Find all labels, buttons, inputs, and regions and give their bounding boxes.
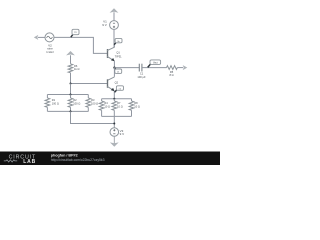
svg-text:100 Ω: 100 Ω — [91, 101, 98, 105]
junction — [70, 83, 72, 85]
node flag collector Q1 — [114, 38, 122, 44]
output junction dot — [113, 67, 115, 69]
node flag Vout — [148, 60, 161, 68]
supply arrow above R6 — [66, 51, 75, 64]
resistor R7 — [112, 99, 123, 117]
wire to bottom — [71, 111, 115, 123]
input terminal arrow — [34, 35, 45, 40]
node flag Q2 — [115, 86, 124, 93]
svg-text:100 Ω: 100 Ω — [73, 101, 80, 105]
junction — [70, 94, 72, 96]
node flag IN — [71, 29, 79, 37]
svg-text:100 Ω: 100 Ω — [52, 101, 59, 105]
svg-text:TIP31: TIP31 — [115, 54, 122, 58]
svg-text:http://circuitlab.com/c22bu27c: http://circuitlab.com/c22bu27czy5k3 — [51, 158, 105, 162]
svg-text:8 Ω: 8 Ω — [169, 73, 173, 77]
svg-text:9 V: 9 V — [120, 132, 125, 136]
transistor Q1 — [107, 43, 122, 67]
wire C1 to R5 — [142, 67, 167, 69]
R1 R2 R3 bottom rail — [47, 110, 88, 112]
output terminal arrow — [183, 65, 188, 70]
battery V3 bottom — [110, 128, 124, 145]
resistor R4 — [99, 99, 110, 117]
wire R6 to rail — [70, 84, 72, 95]
footer watermark bar — [0, 152, 220, 166]
resistor R6 — [68, 64, 79, 84]
svg-text:9 V: 9 V — [102, 23, 107, 27]
svg-text:10 Ω: 10 Ω — [104, 104, 110, 108]
capacitor C1 — [137, 64, 146, 79]
svg-text:1 kHz: 1 kHz — [46, 50, 54, 54]
R1 R2 R3 top rail — [47, 94, 88, 96]
svg-text:Vout: Vout — [153, 61, 158, 64]
resistor R2 — [68, 95, 80, 112]
junction — [70, 110, 72, 112]
sub-network bottom rail — [102, 115, 132, 117]
wire down to V3 — [113, 116, 115, 127]
sub-network top rail — [102, 98, 132, 100]
resistor R8 — [129, 99, 140, 117]
resistor R3 — [86, 95, 98, 112]
svg-text:phogfan / BP#2: phogfan / BP#2 — [51, 154, 78, 158]
ground arrow bottom — [110, 142, 119, 146]
battery V1 top — [102, 8, 118, 47]
svg-text:1k Ω: 1k Ω — [74, 67, 79, 71]
resistor R5 (load) — [167, 66, 184, 77]
wire input top — [54, 37, 107, 53]
node flag emitter Q1 — [115, 68, 122, 74]
svg-text:LAB: LAB — [23, 159, 36, 165]
resistor R1 — [45, 95, 59, 112]
svg-text:Q2: Q2 — [115, 81, 119, 85]
svg-text:10 Ω: 10 Ω — [117, 104, 123, 108]
wire to C1 — [114, 67, 139, 69]
svg-text:Q1: Q1 — [116, 50, 120, 54]
svg-text:10 Ω: 10 Ω — [134, 104, 140, 108]
svg-text:100 µF: 100 µF — [137, 75, 146, 79]
transistor Q2 — [107, 68, 118, 99]
wire Q2 base — [71, 83, 108, 85]
voltage source V2 (sine) — [45, 33, 54, 54]
